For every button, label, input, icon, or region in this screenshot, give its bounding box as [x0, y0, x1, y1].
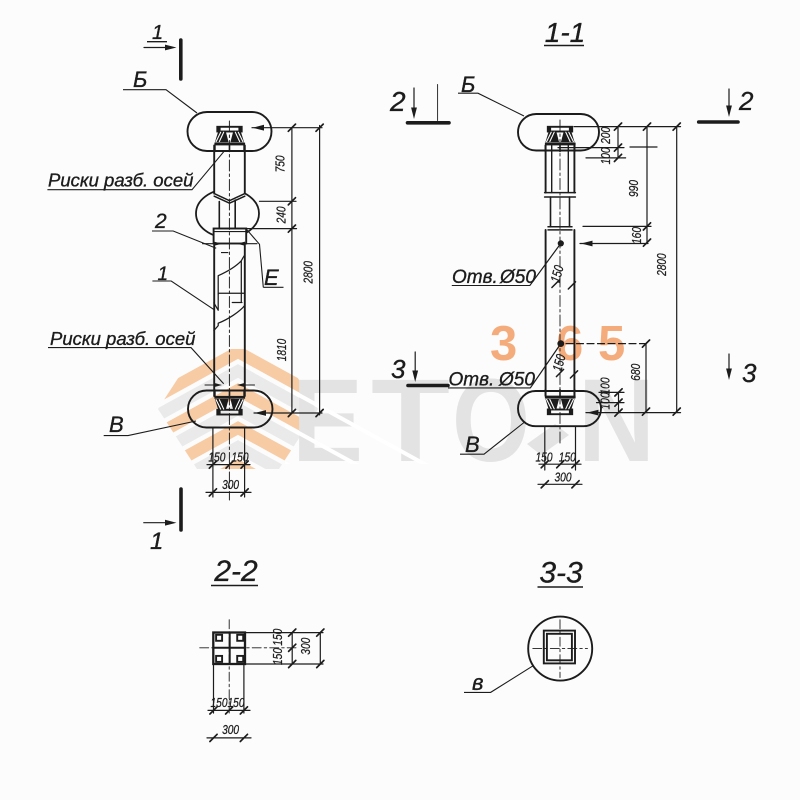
svg-text:300: 300: [555, 470, 573, 485]
svg-text:150: 150: [228, 695, 246, 710]
svg-text:1: 1: [158, 264, 169, 285]
svg-text:В: В: [465, 432, 480, 457]
svg-text:2800: 2800: [654, 253, 669, 277]
svg-text:Б: Б: [133, 67, 147, 92]
svg-text:1: 1: [152, 22, 163, 44]
svg-text:Отв.: Отв.: [452, 267, 498, 288]
svg-text:2: 2: [389, 86, 406, 117]
svg-text:1: 1: [150, 528, 163, 555]
svg-text:E: E: [292, 355, 363, 487]
svg-text:750: 750: [273, 155, 288, 173]
svg-text:N: N: [578, 355, 655, 487]
svg-text:200: 200: [598, 126, 613, 144]
svg-text:3: 3: [742, 358, 757, 388]
svg-text:150: 150: [559, 450, 577, 465]
svg-text:3: 3: [391, 354, 406, 384]
svg-text:100: 100: [598, 377, 613, 395]
svg-text:300: 300: [298, 637, 313, 655]
svg-text:240: 240: [273, 206, 288, 224]
svg-text:1-1: 1-1: [545, 17, 585, 48]
svg-text:Риски разб. осей: Риски разб. осей: [48, 170, 193, 191]
svg-text:3-3: 3-3: [539, 557, 583, 590]
svg-text:2-2: 2-2: [213, 555, 258, 588]
svg-text:990: 990: [626, 179, 641, 197]
svg-text:Риски разб. осей: Риски разб. осей: [50, 328, 195, 349]
svg-text:150: 150: [536, 450, 554, 465]
svg-text:150: 150: [270, 628, 285, 646]
svg-text:в: в: [472, 670, 483, 695]
svg-text:150: 150: [232, 450, 250, 465]
svg-text:T: T: [371, 355, 450, 487]
svg-text:300: 300: [222, 477, 240, 492]
svg-text:680: 680: [628, 363, 643, 381]
svg-text:150: 150: [208, 450, 226, 465]
svg-text:1810: 1810: [274, 338, 289, 361]
svg-text:300: 300: [222, 722, 240, 737]
svg-text:100: 100: [598, 392, 613, 410]
svg-text:100: 100: [598, 147, 613, 165]
svg-text:2: 2: [738, 86, 754, 116]
svg-text:150: 150: [270, 647, 285, 665]
svg-text:3: 3: [490, 317, 517, 371]
svg-text:В: В: [109, 412, 124, 437]
svg-text:Е: Е: [264, 265, 279, 290]
svg-text:160: 160: [629, 226, 644, 244]
svg-text:Ø50: Ø50: [499, 267, 536, 288]
svg-text:2800: 2800: [301, 260, 316, 284]
svg-text:150: 150: [211, 695, 229, 710]
svg-text:2: 2: [154, 210, 167, 233]
